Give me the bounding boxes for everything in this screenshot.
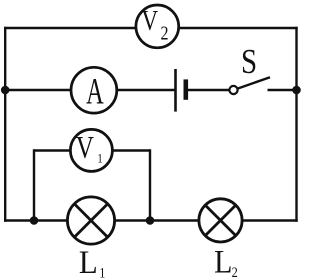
wire middle: switch to right junction	[268, 89, 297, 91]
wire right side	[295, 27, 297, 222]
svg-text:2: 2	[160, 22, 168, 44]
wire V1 branch left vertical	[33, 149, 35, 220]
battery: short thick plate (negative)	[184, 79, 189, 99]
junction node: middle wire right	[292, 86, 301, 95]
lamp L1	[67, 197, 114, 244]
ammeter A	[71, 67, 117, 113]
svg-text:L: L	[79, 244, 98, 279]
label L2	[214, 243, 238, 279]
voltmeter V2	[136, 5, 179, 48]
svg-text:V: V	[76, 130, 94, 166]
label L1	[79, 244, 106, 279]
svg-text:2: 2	[232, 264, 238, 279]
svg-text:L: L	[214, 243, 232, 279]
wire middle: left junction to battery	[5, 89, 175, 91]
voltmeter V1	[70, 129, 112, 171]
wire V1 branch right vertical	[149, 149, 151, 220]
svg-text:1: 1	[99, 264, 105, 279]
junction node: middle wire left	[1, 86, 10, 95]
battery: long plate (positive)	[174, 69, 177, 112]
svg-text:1: 1	[97, 150, 102, 165]
junction node: V1 branch right on bottom wire	[146, 216, 155, 225]
junction node: V1 branch left on bottom wire	[30, 216, 39, 225]
svg-text:S: S	[241, 43, 257, 81]
wire middle: battery to switch	[186, 89, 230, 91]
wire left side	[4, 27, 6, 222]
wire top (left loop top side)	[4, 27, 298, 29]
switch S lever	[238, 77, 271, 88]
lamp L2	[199, 199, 242, 242]
wire V1 branch horizontal	[34, 149, 150, 151]
svg-text:A: A	[86, 71, 104, 112]
switch S pivot circle	[229, 86, 237, 94]
wire bottom	[4, 219, 298, 221]
svg-text:V: V	[142, 5, 159, 37]
